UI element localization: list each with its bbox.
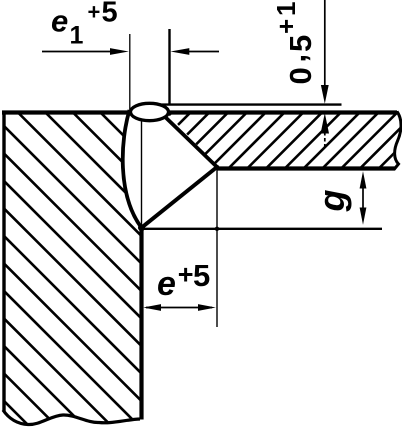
right plate bottom edge <box>217 166 396 170</box>
dimension 0,5: upper dim line <box>324 0 326 86</box>
junction at plate bottom left end <box>215 165 220 170</box>
left plate bottom break line <box>3 410 140 425</box>
left plate right edge lower thick <box>139 227 143 420</box>
dimension e1: extension line left <box>129 34 131 110</box>
svg-text:e: e <box>51 4 68 39</box>
left plate outline <box>2 111 142 425</box>
dimension 0,5: up arrowhead <box>321 113 329 134</box>
svg-text:,: , <box>278 54 313 63</box>
svg-text:+: + <box>88 0 101 25</box>
dimension 0,5: lower dim line <box>324 132 326 149</box>
weld root diagonal <box>142 167 218 228</box>
label 0,5+1 rotated <box>271 2 318 85</box>
weld nugget ellipse <box>131 103 169 120</box>
svg-text:0: 0 <box>283 67 318 84</box>
svg-text:5: 5 <box>193 258 210 293</box>
dimension g: double arrow line <box>362 186 364 210</box>
weld fusion arc (left plate) <box>123 110 142 228</box>
weld cap reference line <box>150 103 342 105</box>
dimension e: double arrow line <box>146 307 212 309</box>
svg-text:+: + <box>271 19 301 34</box>
dimension e1: extension line right <box>168 29 170 104</box>
left plate left edge <box>2 111 5 411</box>
root junction <box>138 224 145 231</box>
dimension e: right arrowhead <box>198 304 216 311</box>
left plate right edge upper thin (joint interface) <box>141 119 143 228</box>
svg-text:e: e <box>157 265 176 303</box>
svg-text:g: g <box>311 190 352 213</box>
right plate outline <box>158 112 401 170</box>
dimension g: bottom arrowhead <box>360 208 367 225</box>
right plate right break line <box>394 112 401 170</box>
dimension e1: left dim line <box>42 51 111 53</box>
right plate top edge <box>158 110 397 114</box>
dimension e: left arrowhead <box>143 304 161 311</box>
dimension 0,5: down arrowhead <box>321 85 329 104</box>
dimension e: extension line <box>216 168 218 327</box>
left plate top edge <box>2 110 133 114</box>
dimension g: top arrowhead <box>360 171 367 188</box>
weld fusion diagonal (right plate) <box>160 112 217 167</box>
dimension e1: right dim line <box>189 51 219 53</box>
svg-text:1: 1 <box>70 22 84 50</box>
weld root reference line <box>142 228 383 230</box>
junction root line crossing <box>215 227 219 231</box>
dimension e1: left arrowhead <box>110 48 129 55</box>
svg-text:1: 1 <box>271 2 301 16</box>
svg-text:5: 5 <box>283 35 318 52</box>
dimension e1: right arrowhead <box>171 48 190 55</box>
svg-text:+: + <box>178 259 194 289</box>
label g rotated <box>311 190 352 213</box>
svg-text:5: 5 <box>102 0 118 29</box>
